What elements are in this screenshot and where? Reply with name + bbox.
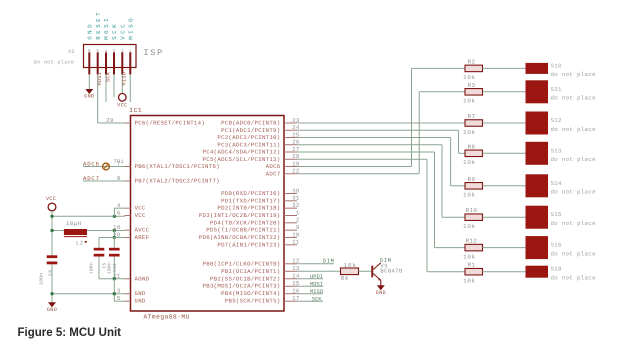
svg-text:MISO: MISO bbox=[310, 289, 323, 295]
svg-text:S15: S15 bbox=[551, 211, 563, 218]
svg-text:PC1(ADC1/PCINT9): PC1(ADC1/PCINT9) bbox=[221, 127, 280, 134]
svg-text:BC847B: BC847B bbox=[380, 267, 403, 274]
svg-text:SCK: SCK bbox=[312, 296, 322, 302]
svg-text:10k: 10k bbox=[463, 74, 476, 81]
svg-text:PB1(OC1A/PCINT1): PB1(OC1A/PCINT1) bbox=[221, 268, 280, 275]
svg-text:C12: C12 bbox=[112, 263, 118, 272]
svg-text:R8: R8 bbox=[468, 143, 476, 150]
svg-text:SCK: SCK bbox=[105, 71, 111, 82]
svg-text:PB2(SS/OC1B/PCINT2): PB2(SS/OC1B/PCINT2) bbox=[210, 275, 281, 282]
svg-text:R9: R9 bbox=[468, 176, 476, 183]
svg-text:10k: 10k bbox=[463, 192, 476, 199]
svg-text:PD6(AIN0/OC0A/PCINT22): PD6(AIN0/OC0A/PCINT22) bbox=[199, 234, 281, 241]
svg-text:VCC: VCC bbox=[120, 22, 127, 40]
svg-text:PB6(XTAL1/TOSC1/PCINT6): PB6(XTAL1/TOSC1/PCINT6) bbox=[135, 163, 220, 170]
svg-text:1: 1 bbox=[296, 209, 300, 216]
svg-text:do not place: do not place bbox=[551, 220, 597, 227]
svg-text:AGND: AGND bbox=[135, 275, 150, 282]
svg-text:MOSI: MOSI bbox=[97, 72, 103, 86]
svg-text:R1: R1 bbox=[468, 262, 476, 269]
svg-text:ADC6: ADC6 bbox=[83, 160, 100, 167]
svg-text:PD7(AIN1/PCINT23): PD7(AIN1/PCINT23) bbox=[217, 241, 280, 248]
svg-text:S11: S11 bbox=[551, 86, 563, 93]
svg-text:do not place: do not place bbox=[551, 95, 597, 102]
svg-text:10k: 10k bbox=[344, 262, 357, 269]
svg-text:do not place: do not place bbox=[34, 60, 75, 66]
svg-text:S10: S10 bbox=[551, 62, 563, 69]
svg-text:L2: L2 bbox=[76, 240, 84, 247]
svg-text:PD4(T0/XCK/PCINT20): PD4(T0/XCK/PCINT20) bbox=[210, 219, 281, 226]
svg-text:ADC6: ADC6 bbox=[266, 163, 281, 170]
svg-text:R12: R12 bbox=[466, 238, 478, 245]
svg-text:10k: 10k bbox=[463, 159, 476, 166]
svg-text:PB0(ICP1/CLKO/PCINT0): PB0(ICP1/CLKO/PCINT0) bbox=[203, 260, 281, 267]
svg-text:2: 2 bbox=[296, 217, 300, 224]
svg-text:MISO: MISO bbox=[122, 72, 128, 86]
svg-text:100n: 100n bbox=[89, 262, 95, 274]
svg-text:do not place: do not place bbox=[551, 189, 597, 196]
svg-text:R7: R7 bbox=[468, 113, 476, 120]
svg-text:VCC: VCC bbox=[135, 205, 146, 212]
svg-text:PC6(/RESET/PCINT14): PC6(/RESET/PCINT14) bbox=[135, 120, 206, 127]
svg-text:DIM: DIM bbox=[323, 257, 335, 264]
svg-text:29: 29 bbox=[106, 117, 114, 124]
svg-text:GND: GND bbox=[135, 298, 146, 305]
svg-text:MISO: MISO bbox=[128, 16, 135, 40]
svg-text:PD3(INT1/OC2B/PCINT19): PD3(INT1/OC2B/PCINT19) bbox=[199, 212, 281, 219]
svg-text:PB4(MISO/PCINT4): PB4(MISO/PCINT4) bbox=[221, 290, 280, 297]
svg-text:do not place: do not place bbox=[551, 126, 597, 133]
svg-text:PB3(MOSI/OC2A/PCINT3): PB3(MOSI/OC2A/PCINT3) bbox=[203, 283, 281, 290]
svg-text:VCC: VCC bbox=[46, 196, 56, 202]
svg-text:S16: S16 bbox=[551, 242, 563, 249]
svg-text:VCC: VCC bbox=[135, 212, 146, 219]
svg-text:VCC: VCC bbox=[117, 103, 127, 109]
svg-text:11: 11 bbox=[292, 239, 300, 246]
svg-text:GND: GND bbox=[376, 290, 386, 296]
svg-text:10µH: 10µH bbox=[66, 220, 81, 227]
svg-text:R3: R3 bbox=[468, 82, 476, 89]
svg-text:PD0(RXD/PCINT16): PD0(RXD/PCINT16) bbox=[221, 190, 280, 197]
svg-text:MOSI: MOSI bbox=[310, 281, 323, 287]
svg-text:10k: 10k bbox=[463, 98, 476, 105]
svg-text:X5: X5 bbox=[68, 49, 75, 55]
svg-text:PD5(T1/OC0B/PCINT21): PD5(T1/OC0B/PCINT21) bbox=[206, 227, 280, 234]
svg-text:SCK: SCK bbox=[111, 22, 118, 40]
svg-text:AREF: AREF bbox=[135, 234, 150, 241]
svg-text:PD2(INT0/PCINT18): PD2(INT0/PCINT18) bbox=[217, 205, 280, 212]
svg-text:ISP: ISP bbox=[144, 48, 164, 58]
svg-text:TP1: TP1 bbox=[114, 159, 125, 165]
svg-text:PC3(ADC3/PCINT11): PC3(ADC3/PCINT11) bbox=[217, 141, 280, 148]
svg-text:10: 10 bbox=[292, 231, 300, 238]
svg-text:30: 30 bbox=[292, 187, 300, 194]
svg-text:PB5(SCK/PCINT5): PB5(SCK/PCINT5) bbox=[225, 298, 281, 305]
svg-text:9: 9 bbox=[296, 224, 300, 231]
svg-text:32: 32 bbox=[292, 202, 300, 209]
svg-text:PC2(ADC2/PCINT10): PC2(ADC2/PCINT10) bbox=[217, 134, 280, 141]
svg-text:PD1(TXD/PCINT17): PD1(TXD/PCINT17) bbox=[221, 197, 280, 204]
svg-text:6: 6 bbox=[117, 209, 121, 216]
svg-text:UPDI: UPDI bbox=[310, 274, 323, 280]
svg-text:PC4(ADC4/SDA/PCINT12): PC4(ADC4/SDA/PCINT12) bbox=[203, 149, 281, 156]
svg-text:C5: C5 bbox=[101, 263, 107, 269]
svg-text:do not place: do not place bbox=[551, 250, 597, 257]
svg-text:IC1: IC1 bbox=[129, 107, 142, 114]
svg-text:R10: R10 bbox=[466, 207, 478, 214]
svg-text:10k: 10k bbox=[463, 129, 476, 136]
svg-text:GND: GND bbox=[84, 94, 94, 100]
svg-text:100n: 100n bbox=[39, 273, 45, 285]
svg-text:R4: R4 bbox=[341, 275, 349, 282]
svg-text:10k: 10k bbox=[463, 278, 476, 285]
svg-text:10k: 10k bbox=[463, 253, 476, 260]
svg-text:10k: 10k bbox=[463, 223, 476, 230]
svg-text:31: 31 bbox=[292, 195, 300, 202]
svg-text:MOSI: MOSI bbox=[103, 16, 110, 40]
svg-text:R2: R2 bbox=[468, 58, 476, 65]
svg-text:do not place: do not place bbox=[551, 156, 597, 163]
svg-text:S12: S12 bbox=[551, 117, 563, 124]
svg-text:PC5(ADC5/SCL/PCINT13): PC5(ADC5/SCL/PCINT13) bbox=[203, 156, 281, 163]
svg-text:S13: S13 bbox=[551, 147, 563, 154]
svg-text:RESET: RESET bbox=[95, 10, 102, 40]
svg-text:ATmega88-MU: ATmega88-MU bbox=[144, 314, 190, 321]
svg-text:GND: GND bbox=[135, 290, 146, 297]
svg-text:do not place: do not place bbox=[551, 71, 597, 78]
svg-text:PC0(ADC0/PCINT8): PC0(ADC0/PCINT8) bbox=[221, 120, 280, 127]
svg-text:AVCC: AVCC bbox=[135, 227, 150, 234]
svg-text:S18: S18 bbox=[551, 266, 563, 273]
svg-text:GND: GND bbox=[87, 22, 94, 40]
svg-text:C4: C4 bbox=[48, 270, 54, 276]
svg-text:ADC7: ADC7 bbox=[83, 175, 100, 182]
svg-text:100n: 100n bbox=[107, 262, 113, 274]
svg-text:PB7(XTAL2/TOSC2/PCINT7): PB7(XTAL2/TOSC2/PCINT7) bbox=[135, 178, 220, 185]
svg-text:do not place: do not place bbox=[551, 275, 597, 282]
svg-text:GND: GND bbox=[47, 307, 57, 313]
svg-text:S14: S14 bbox=[551, 180, 563, 187]
svg-text:ADC7: ADC7 bbox=[266, 170, 281, 177]
